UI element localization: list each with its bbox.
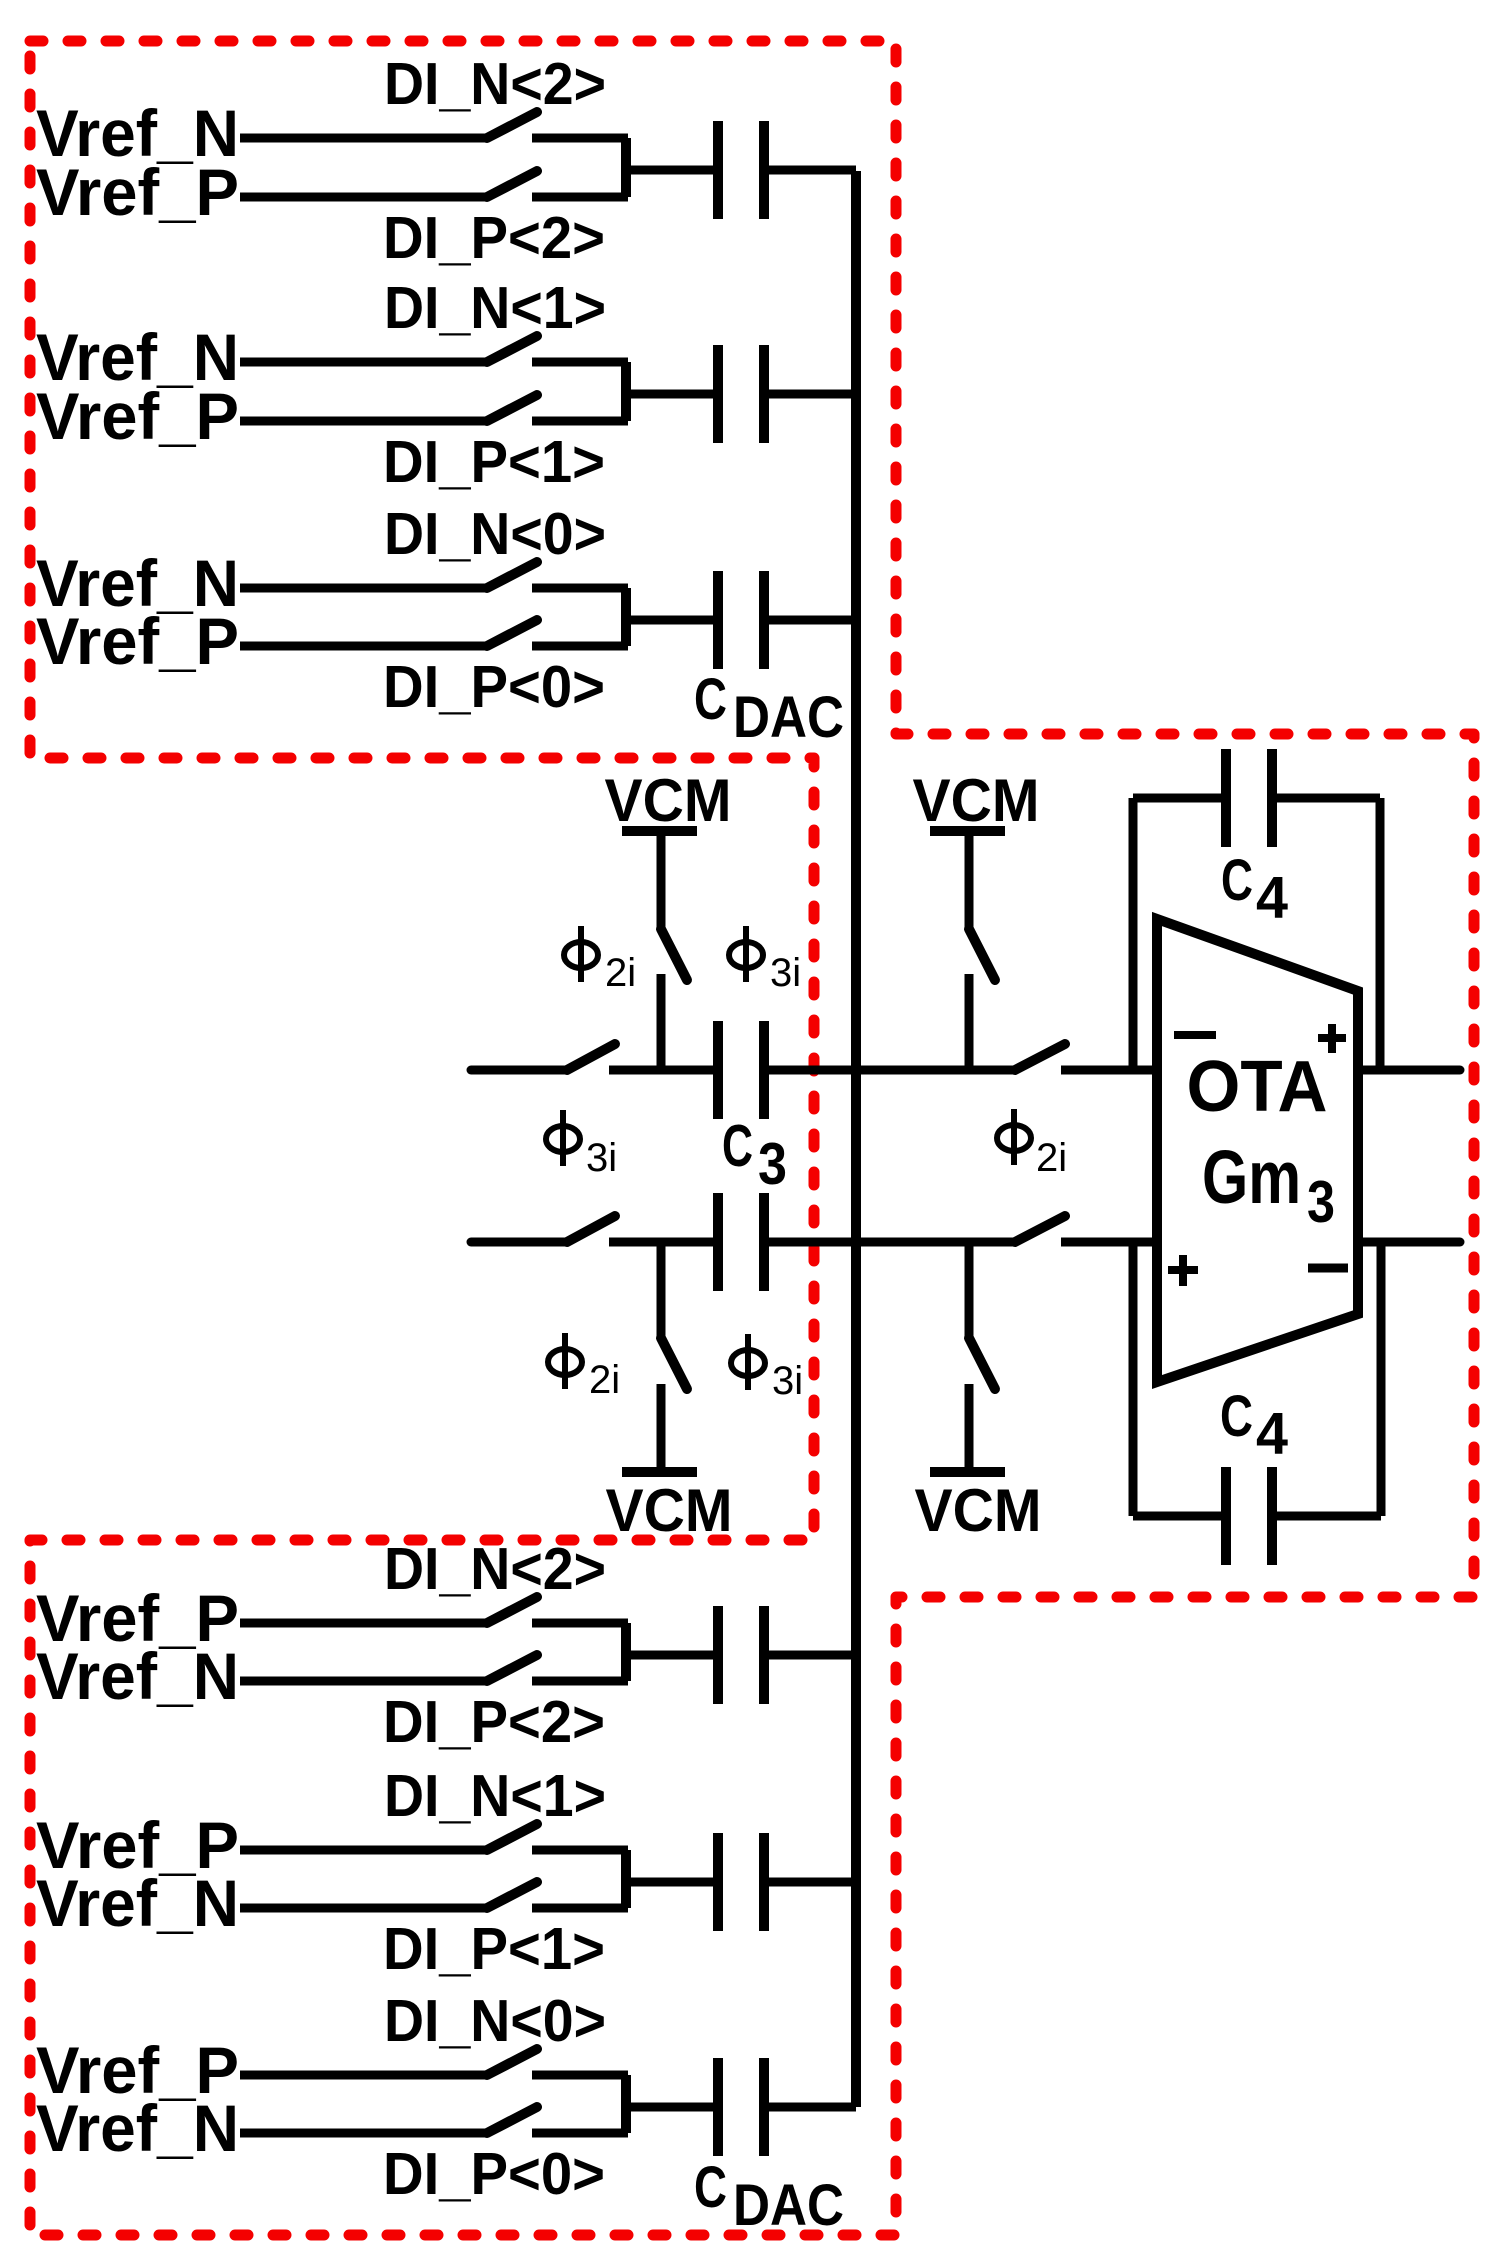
svg-text:DI_N<1>: DI_N<1>	[384, 275, 606, 341]
svg-text:DI_P<1>: DI_P<1>	[383, 1916, 605, 1982]
svg-text:2i: 2i	[1036, 1136, 1067, 1180]
svg-text:Vref_N: Vref_N	[36, 2091, 239, 2165]
svg-text:4: 4	[1256, 1401, 1288, 1467]
svg-text:C: C	[694, 2155, 727, 2220]
svg-text:Gm: Gm	[1202, 1135, 1301, 1219]
svg-text:VCM: VCM	[913, 767, 1040, 834]
svg-text:VCM: VCM	[915, 1477, 1042, 1544]
svg-text:DI_N<1>: DI_N<1>	[384, 1763, 606, 1829]
svg-text:C: C	[1220, 1384, 1253, 1449]
svg-text:3: 3	[758, 1131, 787, 1197]
svg-text:C: C	[1221, 848, 1253, 913]
svg-text:3i: 3i	[772, 1359, 803, 1403]
svg-text:DI_N<2>: DI_N<2>	[384, 1536, 606, 1602]
svg-text:DAC: DAC	[733, 2173, 844, 2238]
svg-text:DI_N<2>: DI_N<2>	[384, 51, 606, 117]
svg-text:DI_P<0>: DI_P<0>	[383, 654, 605, 720]
svg-text:OTA: OTA	[1187, 1047, 1328, 1127]
svg-text:DI_P<2>: DI_P<2>	[383, 205, 605, 271]
svg-text:DI_P<1>: DI_P<1>	[383, 429, 605, 495]
svg-text:3i: 3i	[586, 1136, 617, 1180]
svg-text:Vref_P: Vref_P	[36, 604, 239, 678]
svg-text:DI_N<0>: DI_N<0>	[384, 1988, 606, 2054]
svg-text:3: 3	[1307, 1169, 1335, 1235]
svg-text:4: 4	[1256, 865, 1288, 931]
svg-text:Vref_P: Vref_P	[36, 379, 239, 453]
svg-text:2i: 2i	[589, 1358, 620, 1402]
svg-text:C: C	[722, 1113, 753, 1179]
svg-text:DI_P<2>: DI_P<2>	[383, 1689, 605, 1755]
svg-text:DAC: DAC	[733, 685, 844, 750]
svg-text:Vref_P: Vref_P	[36, 155, 239, 229]
svg-text:2i: 2i	[605, 951, 636, 995]
svg-text:3i: 3i	[770, 951, 801, 995]
svg-text:Vref_N: Vref_N	[36, 1639, 239, 1713]
svg-text:C: C	[694, 667, 727, 732]
svg-text:Vref_N: Vref_N	[36, 1866, 239, 1940]
svg-text:VCM: VCM	[605, 767, 732, 834]
svg-text:VCM: VCM	[606, 1477, 733, 1544]
svg-text:DI_P<0>: DI_P<0>	[383, 2141, 605, 2207]
svg-text:DI_N<0>: DI_N<0>	[384, 501, 606, 567]
